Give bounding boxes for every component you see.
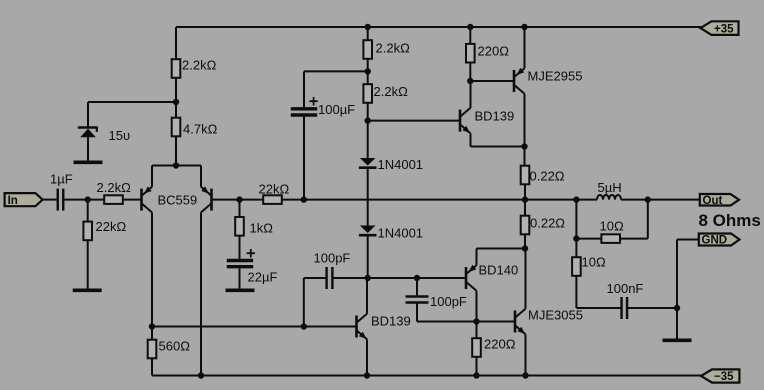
svg-text:10Ω: 10Ω: [582, 254, 606, 269]
svg-text:15υ: 15υ: [109, 128, 131, 143]
svg-text:1kΩ: 1kΩ: [250, 221, 274, 236]
svg-text:100µF: 100µF: [318, 102, 355, 117]
svg-text:2.2kΩ: 2.2kΩ: [376, 40, 411, 55]
svg-text:MJE2955: MJE2955: [528, 68, 583, 83]
svg-text:GND: GND: [702, 235, 728, 247]
svg-text:MJE3055: MJE3055: [528, 307, 583, 322]
svg-text:100pF: 100pF: [314, 250, 351, 265]
svg-text:1µF: 1µF: [50, 172, 73, 187]
svg-text:1N4001: 1N4001: [378, 225, 424, 240]
svg-text:0.22Ω: 0.22Ω: [530, 215, 565, 230]
svg-text:BD140: BD140: [479, 262, 519, 277]
svg-text:22µF: 22µF: [248, 269, 278, 284]
svg-text:1N4001: 1N4001: [378, 157, 424, 172]
svg-text:220Ω: 220Ω: [484, 336, 516, 351]
svg-text:220Ω: 220Ω: [478, 43, 510, 58]
svg-text:BC559: BC559: [158, 192, 198, 207]
svg-text:2.2kΩ: 2.2kΩ: [374, 84, 409, 99]
svg-text:22kΩ: 22kΩ: [96, 219, 127, 234]
svg-text:100pF: 100pF: [430, 294, 467, 309]
svg-text:10Ω: 10Ω: [600, 219, 624, 234]
svg-text:0.22Ω: 0.22Ω: [530, 168, 565, 183]
svg-text:4.7kΩ: 4.7kΩ: [183, 121, 218, 136]
svg-text:+35: +35: [714, 23, 734, 35]
svg-text:Out: Out: [703, 195, 723, 207]
svg-text:2.2kΩ: 2.2kΩ: [97, 180, 132, 195]
svg-text:22kΩ: 22kΩ: [259, 182, 290, 197]
svg-text:In: In: [8, 195, 18, 207]
svg-text:100nF: 100nF: [607, 281, 644, 296]
svg-text:560Ω: 560Ω: [159, 339, 191, 354]
svg-text:BD139: BD139: [475, 109, 515, 124]
svg-text:8 Ohms: 8 Ohms: [699, 211, 761, 230]
svg-text:2.2kΩ: 2.2kΩ: [182, 57, 217, 72]
svg-text:5µH: 5µH: [598, 180, 622, 195]
svg-text:BD139: BD139: [371, 313, 411, 328]
svg-text:−35: −35: [714, 371, 734, 383]
